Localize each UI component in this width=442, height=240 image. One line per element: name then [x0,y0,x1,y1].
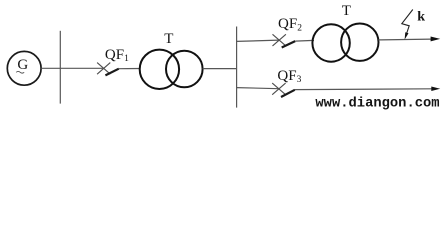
svg-text:QF2: QF2 [278,16,302,33]
svg-text:QF1: QF1 [105,47,129,64]
bus 1 [59,31,61,104]
wire QF3 to lower feeder arrow [295,88,432,91]
transformer T1 [140,50,203,89]
svg-text:k: k [417,10,425,25]
svg-text:G: G [17,57,28,73]
wire bus 2 to QF2 [237,40,280,41]
wire bus 2 to QF3 [237,88,279,89]
wire bus 1 to QF1 [60,67,103,69]
svg-text:T: T [342,3,351,19]
wire generator to bus 1 [41,67,60,69]
breaker QF2 [273,34,296,47]
svg-text:QF3: QF3 [277,68,301,85]
svg-text:T: T [164,31,173,47]
generator G [7,51,41,85]
wire QF1 to T1 [119,68,141,70]
fault lightning arrow at node k [402,10,413,40]
breaker QF1 [97,63,119,76]
breaker QF3 [272,83,295,97]
transformer T2 [312,24,378,62]
wire T2 to upper feeder arrow [378,38,431,41]
arrowhead upper feeder [431,37,441,42]
arrowhead lower feeder [431,87,440,92]
wire T1 to bus 2 [203,68,237,70]
bus 2 [236,27,238,108]
svg-text:www.diangon.com: www.diangon.com [315,96,439,112]
wire QF2 to T2 [295,39,314,42]
